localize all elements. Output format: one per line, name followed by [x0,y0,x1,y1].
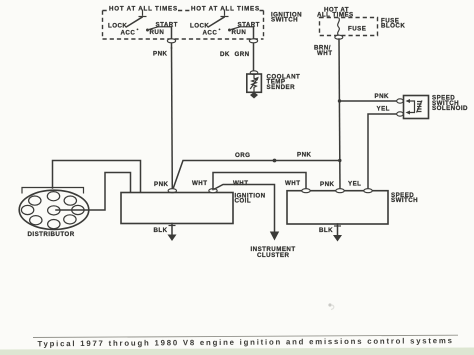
distributor [19,190,89,229]
svg-text:LOCK: LOCK [108,22,127,29]
svg-text:RUN: RUN [232,29,247,36]
svg-text:COIL: COIL [235,198,252,205]
svg-text:BLOCK: BLOCK [381,23,405,30]
svg-text:PNK: PNK [154,181,168,188]
svg-text:PNK: PNK [153,51,167,58]
svg-text:WHT: WHT [317,50,332,57]
scan smudge [328,303,333,309]
svg-text:YEL: YEL [377,105,390,112]
wire WHT coil to instrument cluster [215,185,275,233]
connector at coil WHT terminal [209,189,217,193]
caption text [37,336,453,348]
svg-text:BLK: BLK [154,227,168,234]
svg-text:SWITCH: SWITCH [391,197,418,204]
connector YEL at speed switch [364,189,372,193]
wire PNK from S1 down to ignition coil [171,48,174,190]
junction dot at ORG-PNK line [338,159,341,162]
svg-text:ACC: ACC [203,30,218,37]
svg-text:CLUSTER: CLUSTER [257,252,289,259]
connector at coil PNK terminal [168,189,176,193]
wire PNK to solenoid [340,100,398,102]
svg-text:DKGRN: DKGRN [220,51,250,58]
svg-text:SOLENOID: SOLENOID [432,105,468,112]
ignition switch S2 [190,10,260,37]
speed switch box [287,191,388,224]
wire YEL to solenoid [368,114,397,190]
svg-text:SENDER: SENDER [267,84,296,91]
wire WHT coil to speed switch [213,173,306,190]
svg-text:PNK: PNK [375,93,389,100]
svg-text:LOCK: LOCK [190,22,209,29]
wire BRN-WHT from fuse down to speed switch [339,39,340,190]
fuse block dashed box [320,18,378,36]
svg-text:ORG: ORG [235,152,250,159]
ignition switch housing dashed box [103,11,264,40]
coolant temp sender [247,74,262,99]
svg-text:START: START [238,22,260,29]
distributor cap bracket [22,188,84,194]
svg-text:ACC: ACC [121,30,136,37]
junction dot at PNK solenoid branch [338,99,341,102]
svg-text:HOT AT ALL TIMES: HOT AT ALL TIMES [191,6,260,13]
wire distributor center to coil (B) [56,173,131,211]
svg-text:PNK: PNK [320,181,334,188]
connector at S1 exit [167,39,175,43]
svg-text:WHT: WHT [192,180,207,187]
fuse element F1 [338,18,340,36]
caption rule [33,335,458,337]
arrow to instrument cluster [270,232,279,241]
svg-text:START: START [156,22,178,29]
wire from S2 START down (DK GRN) [253,27,255,72]
svg-text:WHT: WHT [285,180,300,187]
coolant temp sender connector [250,71,258,75]
svg-text:FUSE: FUSE [348,26,366,33]
bottom green band [0,348,474,355]
connector WHT at speed switch [302,189,310,193]
wire from S1 START down [171,27,173,48]
connector PNK at speed switch [336,189,344,193]
svg-text:HOT AT ALL TIMES: HOT AT ALL TIMES [109,6,178,13]
speed switch solenoid [404,96,429,119]
svg-text:SWITCH: SWITCH [271,17,298,24]
solenoid connectors [397,99,404,103]
connector below fuse [335,35,343,39]
wire distributor cap to coil (A) [53,161,141,193]
svg-text:WHT: WHT [233,180,248,187]
ground symbol (coil) [168,235,177,242]
svg-text:YEL: YEL [348,180,361,187]
ground wire BLK (coil) [171,224,173,236]
splice dot ORG/PNK [273,159,277,163]
svg-text:DISTRIBUTOR: DISTRIBUTOR [28,231,75,238]
ignition coil box [121,193,233,224]
svg-text:RUN: RUN [150,29,165,36]
connector at S2 exit [249,39,257,43]
wire ORG-PNK horizontal [174,161,340,188]
svg-text:BLK: BLK [319,227,333,234]
ignition switch S1 [108,10,178,37]
ground symbol (speed switch) [333,235,342,242]
svg-text:PNK: PNK [297,152,311,159]
ground wire BLK (speed switch) [337,224,339,236]
